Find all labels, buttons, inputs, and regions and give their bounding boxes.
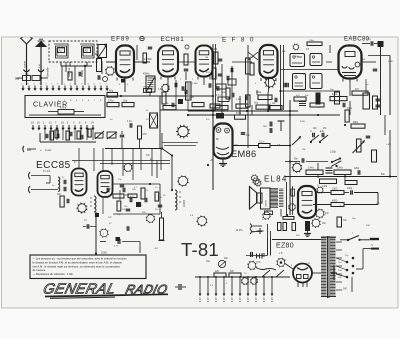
svg-text:1,5Kp: 1,5Kp — [192, 83, 198, 85]
svg-text:T-81: T-81 — [181, 239, 219, 260]
svg-text:AM: AM — [313, 127, 317, 130]
svg-text:Dentelle: Dentelle — [46, 67, 50, 77]
svg-text:68K: 68K — [282, 51, 286, 53]
svg-text:c.a.: c.a. — [38, 64, 41, 68]
svg-text:ECC85: ECC85 — [36, 160, 71, 171]
svg-text:6,3V: 6,3V — [200, 297, 202, 302]
svg-text:1M: 1M — [302, 149, 305, 151]
svg-text:1,5M: 1,5M — [236, 99, 241, 101]
svg-text:470K: 470K — [388, 61, 394, 63]
svg-text:4.5Kp: 4.5Kp — [60, 107, 67, 110]
svg-text:6,3V: 6,3V — [240, 297, 242, 302]
svg-text:56K: 56K — [222, 92, 226, 94]
svg-text:1Kp: 1Kp — [123, 100, 128, 103]
svg-text:6.8Kp: 6.8Kp — [107, 90, 114, 93]
svg-text:6,3V: 6,3V — [224, 297, 226, 302]
svg-text:tion A.M., le chassis regle su: tion A.M., le chassis regle sur tensions… — [33, 264, 121, 268]
svg-text:2200: 2200 — [101, 251, 107, 255]
svg-text:OE580: OE580 — [266, 199, 268, 207]
svg-text:41,5Mc: 41,5Mc — [144, 58, 153, 61]
svg-text:4000: 4000 — [332, 200, 338, 203]
svg-text:4,7p: 4,7p — [127, 120, 132, 123]
svg-text:4,7n: 4,7n — [216, 95, 221, 97]
svg-text:Tn Ant: Tn Ant — [43, 170, 51, 173]
svg-text:6,3V: 6,3V — [208, 297, 210, 302]
svg-text:3,4Kn: 3,4Kn — [337, 168, 344, 170]
svg-text:+: + — [40, 148, 42, 152]
svg-text:1,5M: 1,5M — [270, 103, 275, 105]
svg-text:ECH81: ECH81 — [161, 36, 185, 43]
svg-text:2M: 2M — [362, 59, 365, 61]
svg-text:1Kp: 1Kp — [254, 103, 259, 105]
svg-text:220p: 220p — [354, 168, 360, 170]
svg-text:300: 300 — [15, 77, 20, 81]
svg-text:500n: 500n — [353, 122, 359, 124]
svg-text:470n: 470n — [236, 113, 242, 115]
svg-text:100n: 100n — [309, 40, 315, 42]
svg-text:20K: 20K — [366, 225, 370, 227]
svg-text:3,3 n: 3,3 n — [259, 141, 265, 144]
svg-text:comm: comm — [24, 61, 27, 68]
svg-text:47K: 47K — [108, 217, 112, 219]
svg-text:1M: 1M — [205, 57, 208, 59]
svg-text:1500: 1500 — [332, 188, 338, 191]
svg-text:EF89: EF89 — [111, 36, 130, 43]
svg-text:A2: A2 — [85, 49, 89, 53]
svg-text:le chassis en fonction F.M. et: le chassis en fonction F.M. et au determ… — [33, 260, 123, 264]
svg-text:6,3V: 6,3V — [232, 297, 234, 302]
svg-text:EL84: EL84 — [264, 175, 287, 184]
svg-text:EM86: EM86 — [231, 149, 257, 159]
svg-text:Blinde: Blinde — [80, 69, 84, 77]
svg-text:3,4Kn: 3,4Kn — [308, 168, 315, 170]
svg-text:10000: 10000 — [182, 199, 186, 207]
svg-text:C.ext.: C.ext. — [45, 148, 52, 152]
svg-text:470: 470 — [143, 133, 148, 136]
svg-text:C: C — [310, 130, 312, 133]
svg-text:FM: FM — [323, 128, 326, 130]
svg-text:3,30p: 3,30p — [330, 151, 337, 154]
svg-text:430n: 430n — [332, 94, 338, 96]
svg-text:47K: 47K — [338, 161, 342, 163]
svg-text:180p: 180p — [256, 262, 262, 264]
svg-text:de mesure.: de mesure. — [33, 268, 47, 272]
svg-text:A1: A1 — [59, 49, 63, 53]
svg-text:E F 8 0: E F 8 0 — [222, 37, 255, 44]
svg-text:— Resistance du voltmetre : 1: — Resistance du voltmetre : 1 Mn. — [33, 272, 74, 276]
svg-text:H.Ps: H.Ps — [236, 228, 243, 232]
svg-text:~: ~ — [371, 243, 374, 248]
svg-text:E.E: E.E — [320, 130, 324, 133]
svg-text:.47p: .47p — [366, 39, 371, 41]
svg-text:— Les tensions ou - numeroteur: — Les tensions ou - numeroteur que ete m… — [33, 257, 128, 261]
svg-text:EZ80: EZ80 — [276, 243, 294, 250]
svg-text:0,1M: 0,1M — [322, 186, 327, 188]
svg-text:HF: HF — [256, 254, 267, 261]
svg-text:6,3V: 6,3V — [248, 297, 250, 302]
svg-text:6,3V: 6,3V — [272, 297, 274, 302]
svg-text:470K: 470K — [300, 121, 306, 123]
svg-text:6,3V: 6,3V — [216, 297, 218, 302]
svg-text:270p: 270p — [108, 100, 114, 103]
svg-text:mu.: mu. — [263, 125, 268, 128]
svg-text:+B: +B — [210, 159, 213, 162]
svg-text:100p: 100p — [347, 188, 353, 190]
svg-text:Gamme: Gamme — [67, 67, 71, 77]
svg-text:455Kc: 455Kc — [143, 73, 151, 76]
svg-text:0,5M: 0,5M — [386, 144, 391, 146]
svg-text:100n: 100n — [347, 108, 353, 110]
svg-text:6,3V: 6,3V — [256, 297, 258, 302]
svg-text:1Kp: 1Kp — [206, 261, 211, 263]
svg-text:6,3V: 6,3V — [264, 297, 266, 302]
